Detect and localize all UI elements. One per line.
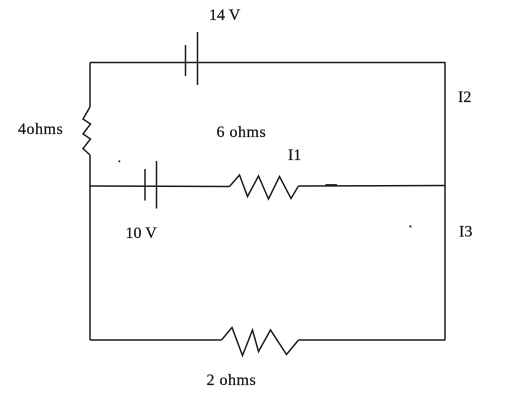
wire bottom right segment — [299, 339, 446, 341]
stray dot left of middle battery — [118, 160, 120, 162]
resistor R3 (2 ohms) horizontal zigzag — [222, 328, 299, 356]
svg-text:14 V: 14 V — [209, 7, 241, 24]
svg-text:I2: I2 — [458, 89, 471, 106]
wire bottom left segment — [90, 339, 222, 341]
svg-text:6 ohms: 6 ohms — [217, 124, 267, 141]
svg-text:I1: I1 — [288, 147, 301, 164]
svg-text:10 V: 10 V — [126, 225, 158, 242]
resistor R2 (6 ohms) horizontal zigzag — [230, 175, 299, 199]
wire middle left segment — [90, 185, 230, 188]
wire top segment — [90, 62, 445, 64]
junction dash on middle wire — [326, 184, 338, 186]
wire left lower segment — [89, 155, 91, 340]
stray dot below I3 wire top — [409, 225, 411, 227]
wire right segment — [444, 62, 446, 340]
svg-text:2 ohms: 2 ohms — [207, 372, 257, 389]
svg-text:4ohms: 4ohms — [18, 121, 63, 138]
wire left upper segment — [89, 63, 91, 108]
resistor R1 (4ohms) vertical zigzag — [83, 107, 91, 155]
svg-text:I3: I3 — [459, 224, 472, 241]
battery V1 (14 V) on top wire — [186, 32, 198, 85]
wire middle right segment — [299, 185, 446, 188]
battery V2 (10 V) on middle wire — [145, 161, 157, 209]
